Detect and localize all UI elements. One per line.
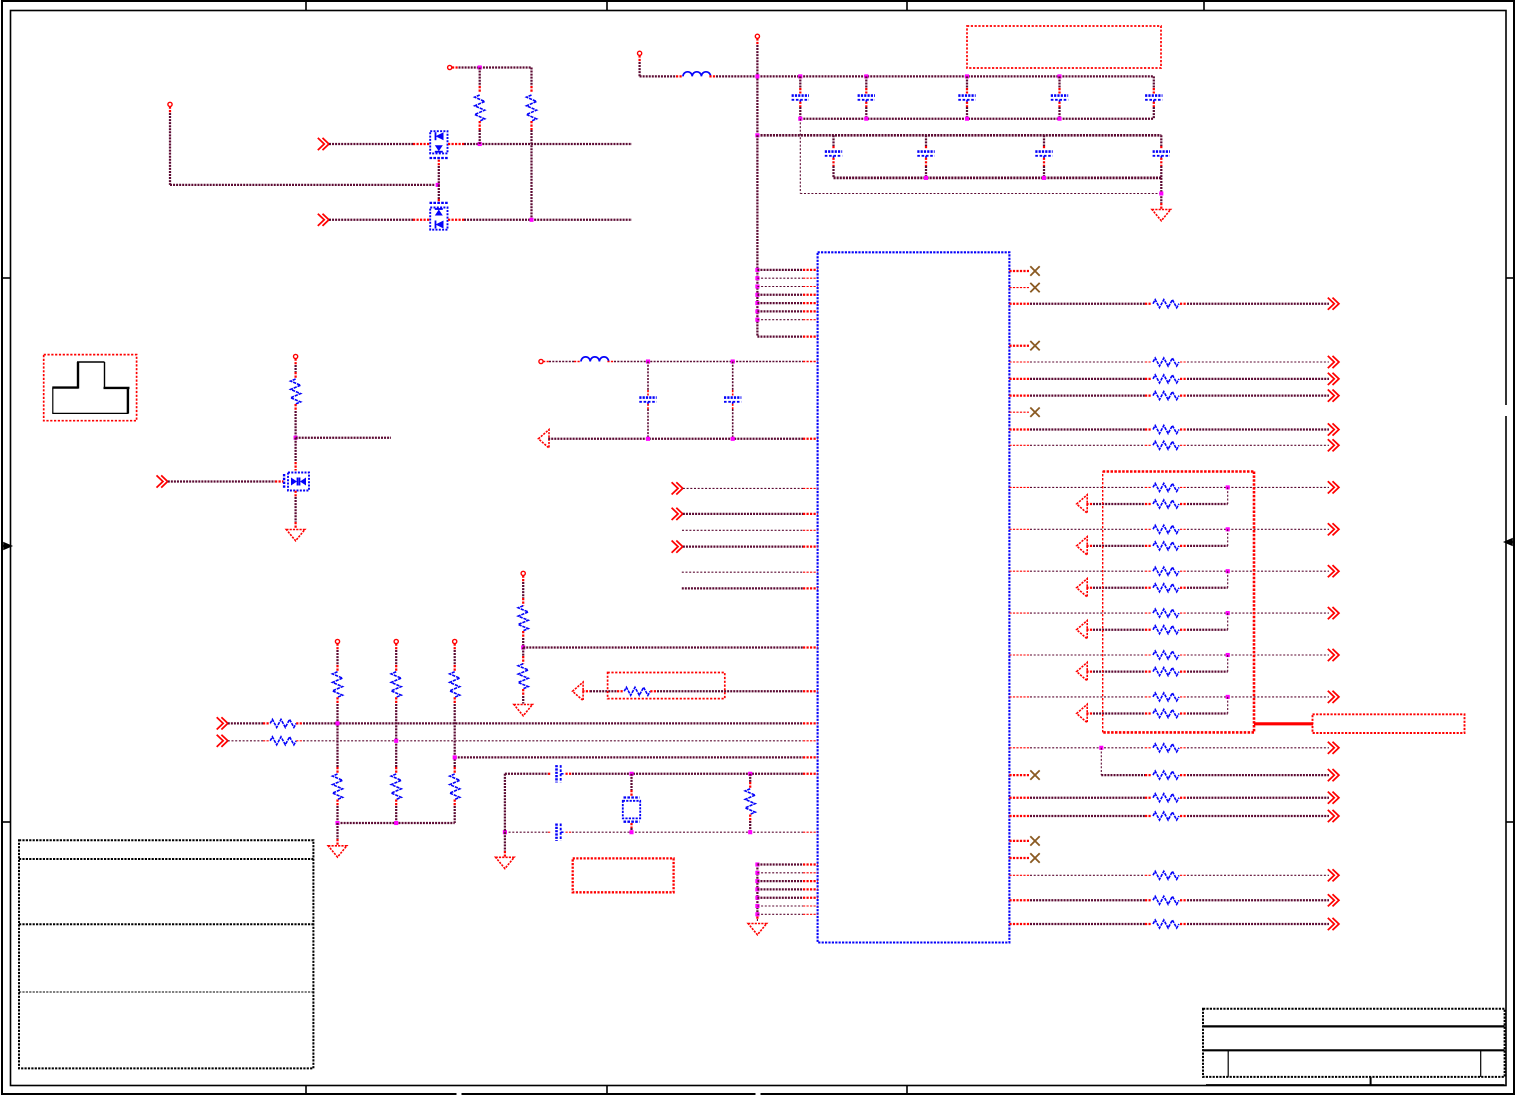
border zone tick left 1 [2, 277, 11, 279]
border zone tick bottom 1 [305, 1086, 307, 1095]
off-page connector OUT13 [1328, 691, 1339, 703]
wire Q1 drain row [448, 143, 464, 145]
resistor R22 [1153, 483, 1179, 491]
wire xtal ground drop [504, 832, 506, 851]
off-page connector IN3 [157, 475, 168, 487]
wire gate rail [170, 184, 435, 186]
resistor R13 [450, 672, 460, 698]
wire C4 bottom stub [1058, 102, 1060, 107]
wire row303 a [1009, 303, 1030, 305]
wire row757 [455, 756, 803, 758]
wire xtal rail bottom b [566, 831, 573, 833]
node col junction P8 [335, 721, 339, 725]
resistor R34 [1153, 744, 1179, 752]
wire row379 b [1180, 378, 1187, 380]
node bus junction 3 [755, 284, 759, 288]
border zone tick bottom 3 [906, 1086, 908, 1095]
resistor R4 [518, 606, 528, 631]
title block outline [1203, 1009, 1505, 1077]
wire xtal rail top b [566, 773, 573, 775]
resistor R19 [1153, 392, 1179, 400]
resistor R29 [1153, 626, 1179, 634]
wire pairrow6 top a [1009, 696, 1030, 698]
capacitor C5 [1145, 94, 1162, 97]
wire bus corner row [757, 335, 803, 337]
wire C9 top stub [1160, 135, 1162, 146]
wire pairrow1 bottom a [1086, 503, 1093, 505]
node rail1 junction b [798, 74, 802, 78]
node bus junction 2 [755, 276, 759, 280]
capacitor C12 [555, 765, 558, 782]
wire pair vertical 3 [1227, 571, 1229, 588]
resistor R31 [1153, 668, 1179, 676]
wire C8 top stub [1043, 135, 1045, 146]
wire C1 top stub [799, 76, 801, 88]
wire row445 b [1180, 444, 1187, 446]
ic U1 [818, 252, 1010, 942]
wire bus vertical [756, 135, 758, 336]
wire bus pin row 4 [757, 294, 803, 296]
node bus junction 6 [755, 309, 759, 313]
no-connect X3 [1030, 341, 1039, 350]
node bus junction 4 [755, 293, 759, 297]
resistor R36 [1153, 794, 1179, 802]
off-page connector IN2 [318, 214, 329, 226]
node Q1-R1 junction [478, 142, 482, 146]
resistor R7 [270, 719, 296, 727]
wire row723 b [296, 722, 303, 724]
wire R4 to node [522, 631, 524, 638]
resistor R35 [1153, 771, 1179, 779]
wire R13 down [454, 697, 456, 704]
capacitor C7 [917, 150, 934, 153]
node pair junction 6 [1226, 695, 1230, 699]
node AGND junction b [731, 437, 735, 441]
wire pair vertical 1 [1227, 487, 1229, 504]
power pin P9 [394, 639, 398, 643]
wire R10 down [336, 800, 338, 807]
wire R15 top stub [749, 774, 751, 782]
wire Q3 drain branch [296, 437, 391, 439]
off-page connector OUT7 [1328, 439, 1339, 451]
wire row723 a [228, 722, 263, 724]
wire row396 b [1180, 394, 1187, 396]
resistor R28 [1153, 609, 1179, 617]
resistor R33 [1153, 710, 1179, 718]
wire bus pin row 6 [757, 310, 803, 312]
title block divider 1 [1227, 1050, 1229, 1077]
title block line 1 [1203, 1025, 1505, 1027]
off-page connector OUT6 [1328, 423, 1339, 435]
resistor R6 [624, 687, 650, 695]
ground GND1 [1152, 210, 1171, 221]
ic pin NC6 [1009, 840, 1029, 842]
wire C11 top stub [732, 362, 734, 391]
node pair junction 1 [1226, 485, 1230, 489]
wire P6 down [294, 359, 296, 365]
power pin P1 [168, 102, 172, 106]
border center arrow right [1505, 539, 1514, 545]
resistor R11 [391, 672, 401, 698]
resistor R14 [450, 774, 460, 800]
label box B3 [573, 858, 674, 892]
capacitor C4 [1051, 94, 1068, 97]
wire stack bus [756, 865, 758, 914]
title block bottom divider [1370, 1077, 1372, 1086]
wire C5 top stub [1153, 76, 1155, 88]
wire pairrow2 bottom a [1086, 545, 1093, 547]
wire ground drop [1160, 178, 1162, 203]
wire row748 a [1009, 747, 1030, 749]
title block divider 2 [1480, 1050, 1482, 1077]
wire row875 b [1180, 874, 1187, 876]
off-page connector OUT12 [1328, 649, 1339, 661]
resistor R39 [1153, 896, 1179, 904]
resistor R1 [475, 95, 485, 121]
wire Q3 source down [294, 491, 296, 497]
wire C6 top stub [832, 135, 834, 146]
wire P4 down bus [756, 38, 758, 45]
node stack junction 3 [755, 879, 759, 883]
inductor L2 [581, 357, 609, 362]
wire C5 bottom stub [1153, 102, 1155, 107]
wire stack row 6 [757, 905, 803, 907]
power pin P10 [453, 639, 457, 643]
node L2 rail junction a [646, 359, 650, 363]
capacitor C1 [792, 94, 809, 97]
port arrow PIN6 [1077, 704, 1088, 722]
wire P3 down [638, 55, 640, 62]
revision table box [19, 840, 313, 1068]
node xtal top junction b [748, 772, 752, 776]
capacitor C6 [825, 150, 842, 153]
wire pairrow1 bottom b [1180, 503, 1187, 505]
wire pairrow5 top b [1180, 654, 1187, 656]
no-connect X1 [1030, 266, 1039, 275]
wire pairrow5 top a [1009, 654, 1030, 656]
node ground drop junction [1159, 191, 1163, 195]
power pin P3 [638, 51, 642, 55]
wire C11 bottom stub [732, 404, 734, 409]
wire IN3 to Q3 gate [168, 480, 275, 482]
capacitor C13 [555, 824, 558, 841]
wire xtal rail bottom [505, 831, 548, 833]
wire C3 top stub [966, 76, 968, 88]
resistor R18 [1153, 375, 1179, 383]
wire row900 b [1180, 899, 1187, 901]
wire IN2 to Q2 [329, 219, 413, 221]
wire row362 b [1180, 361, 1187, 363]
wire node to R5 [522, 648, 524, 657]
node bus junction 1 [755, 268, 759, 272]
resistor R9 [333, 672, 343, 698]
capacitor C11 [724, 396, 741, 399]
power pin P4 [755, 34, 759, 38]
wire pairrow3 bottom a [1086, 587, 1093, 589]
wire stack row 2 [757, 872, 803, 874]
revision table row line 3 [19, 991, 313, 993]
resistor R20 [1153, 426, 1179, 434]
node bottom rail junction b [394, 821, 398, 825]
wire stack row 5 [757, 897, 803, 899]
wire R5 to ground [522, 689, 524, 696]
resistor R24 [1153, 525, 1179, 533]
off-page connector OUT9 [1328, 523, 1339, 535]
wire row875 a [1009, 874, 1030, 876]
wire C3 bottom stub [966, 102, 968, 107]
wire rail1 drop [799, 119, 801, 194]
node rail1ret junction a [798, 117, 802, 121]
node bus junction 5 [755, 301, 759, 305]
node gate junction [436, 183, 440, 187]
resistor R26 [1153, 567, 1179, 575]
logo shape [77, 362, 79, 389]
border notch bottom 1 [457, 1090, 462, 1096]
wire row429 b [1180, 428, 1187, 430]
off-page connector OUT4 [1328, 373, 1339, 385]
border notch bottom 2 [756, 1090, 761, 1096]
wire bus pin row 3 [757, 286, 803, 288]
power pin P8 [335, 639, 339, 643]
wire stack row 7 [757, 913, 803, 915]
node stack junction 4 [755, 887, 759, 891]
wire rail to ground [336, 823, 338, 839]
resistor R15 [745, 789, 755, 815]
wire cap rail 1 [757, 75, 1153, 77]
off-page connector IN5 [672, 508, 683, 520]
node L2 rail junction b [731, 359, 735, 363]
wire P8 down [336, 644, 338, 650]
wire pairrow6 top b [1180, 696, 1187, 698]
wire gate to Q2 [438, 185, 440, 199]
wire stack row 3 [757, 880, 803, 882]
node stack junction 7 [755, 912, 759, 916]
ic pin NC1 [1009, 270, 1029, 272]
wire pairrow3 top b [1180, 570, 1187, 572]
off-page connector OUT20 [1328, 918, 1339, 930]
wire stack row 4 [757, 888, 803, 890]
port arrow PIN1 [1077, 495, 1088, 513]
node rail1 junction a [755, 74, 759, 78]
wire row748 b [1180, 747, 1187, 749]
node rail2ret junction a [924, 176, 928, 180]
wire R1 top stub [479, 68, 481, 87]
wire P7 down [522, 576, 524, 583]
wire row924 b [1180, 923, 1187, 925]
wire stack row 1 [757, 863, 803, 865]
no-connect X2 [1030, 283, 1039, 292]
wire row798 b [1180, 797, 1187, 799]
wire row775 a [1101, 774, 1145, 776]
off-page connector IN6 [672, 541, 683, 553]
node bus junction 7 [755, 318, 759, 322]
label box B5 [1313, 714, 1465, 733]
label box B1 [967, 26, 1161, 68]
logo frame [44, 355, 137, 421]
off-page connector OUT17 [1328, 810, 1339, 822]
wire row798 a [1009, 797, 1030, 799]
node rail2ret junction b [1042, 176, 1046, 180]
ic pin NC3 [1009, 345, 1029, 347]
wire pairrow3 bottom b [1180, 587, 1187, 589]
wire L2 to IC [607, 361, 614, 363]
wire row924 a [1009, 923, 1030, 925]
capacitor C2 [858, 94, 875, 97]
node col junction P10 [453, 755, 457, 759]
wire R15 bottom stub [749, 815, 751, 822]
wire row572 [682, 571, 803, 573]
wire pairrow2 top a [1009, 528, 1030, 530]
wire AGND rail [548, 438, 803, 440]
off-page connector OUT18 [1328, 869, 1339, 881]
wire row429 a [1009, 428, 1030, 430]
wire row691 a [582, 690, 590, 692]
off-page connector OUT11 [1328, 607, 1339, 619]
node stack junction 6 [755, 904, 759, 908]
border zone tick left 2 [2, 821, 11, 823]
no-connect X5 [1030, 770, 1039, 779]
border zone tick top 2 [606, 1, 608, 11]
wire pair vertical 4 [1227, 613, 1229, 630]
wire C10 bottom stub [647, 404, 649, 409]
wire bus pin row 1 [757, 269, 803, 271]
wire row741 b [296, 740, 303, 742]
resistor R32 [1153, 693, 1179, 701]
wire C1 bottom stub [799, 102, 801, 107]
wire pairrow2 bottom b [1180, 545, 1187, 547]
wire IN1 to Q1 [329, 143, 413, 145]
wire pairrow4 top b [1180, 612, 1187, 614]
wire row362 a [1009, 361, 1030, 363]
border zone tick bottom 2 [606, 1086, 608, 1095]
wire row816 b [1180, 815, 1187, 817]
wire C10 top stub [647, 362, 649, 391]
wire pairrow1 top a [1009, 486, 1030, 488]
wire row514 [683, 513, 803, 515]
ic pin NC4 [1009, 411, 1029, 413]
resistor R10 [333, 774, 343, 800]
off-page connector IN8 [217, 735, 228, 747]
wire row488 [683, 487, 803, 489]
node AGND junction a [646, 437, 650, 441]
label box B2 [608, 673, 725, 699]
node stack junction 5 [755, 896, 759, 900]
wire pairrow2 top b [1180, 528, 1187, 530]
border zone tick top 4 [1203, 1, 1205, 11]
wire C6 bottom stub [832, 158, 834, 166]
wire pairrow4 top a [1009, 612, 1030, 614]
node rail-R1 junction [478, 65, 482, 69]
revision table row line 2 [19, 923, 313, 925]
wire R9 down [336, 697, 338, 704]
wire pairrow1 top b [1180, 486, 1187, 488]
crystal Y1 [624, 796, 640, 798]
ic pin NC2 [1009, 287, 1029, 289]
wire pairrow6 bottom b [1180, 712, 1187, 714]
wire R2 bottom [530, 121, 532, 130]
wire pair vertical 6 [1227, 697, 1229, 714]
wire C4 top stub [1058, 76, 1060, 88]
node stack junction 2 [755, 871, 759, 875]
no-connect X4 [1030, 408, 1039, 417]
no-connect X6 [1030, 836, 1039, 845]
node pair junction 4 [1226, 611, 1230, 615]
transistor Q3 [288, 473, 309, 491]
power pin P6 [294, 354, 298, 358]
resistor R38 [1153, 871, 1179, 879]
wire bus pin row 5 [757, 302, 803, 304]
resistor R16 [1153, 300, 1179, 308]
wire R14 down [454, 800, 456, 807]
resistor R40 [1153, 920, 1179, 928]
node rail2 junction a [755, 133, 759, 137]
ground GND3 [514, 705, 533, 716]
wire cap rail 2 [757, 134, 1161, 137]
wire P1 down [169, 107, 171, 114]
ground GND5 [496, 857, 515, 868]
off-page connector IN1 [318, 138, 329, 150]
transistor Q2 [430, 208, 447, 230]
wire pairrow4 bottom b [1180, 629, 1187, 631]
node xtal top junction a [629, 772, 633, 776]
wire row530 [682, 529, 803, 531]
node row748 junction [1099, 746, 1103, 750]
title block bottom strip line [1206, 1084, 1505, 1086]
wire bus pin row 7 [757, 319, 803, 321]
no-connect X7 [1030, 853, 1039, 862]
port arrow PIN5 [1077, 662, 1088, 680]
wire R3 to node [294, 404, 296, 411]
wire C7 bottom stub [925, 158, 927, 166]
wire top rail R1R2 [452, 66, 459, 68]
wire C2 bottom stub [865, 102, 867, 107]
wire cap rail 1 return [800, 118, 1154, 120]
ground GND6 [748, 924, 767, 935]
off-page connector OUT10 [1328, 565, 1339, 577]
wire pairrow3 top a [1009, 570, 1030, 572]
node rail1ret junction b [864, 117, 868, 121]
port arrow PIN2 [1077, 537, 1088, 555]
node xtal bottom junction c [748, 830, 752, 834]
port arrow PIN4 [1077, 621, 1088, 639]
node pair junction 2 [1226, 527, 1230, 531]
off-page connector OUT14 [1328, 742, 1339, 754]
node pair junction 3 [1226, 569, 1230, 573]
border zone tick top 3 [906, 1, 908, 11]
wire columns bottom rail [338, 822, 455, 824]
off-page connector IN7 [217, 717, 228, 729]
group box B4 [1103, 470, 1254, 473]
border zone tick right 2 [1506, 821, 1514, 823]
wire pairrow6 bottom a [1086, 712, 1093, 714]
wire C8 bottom stub [1043, 158, 1045, 166]
node col junction P9 [394, 739, 398, 743]
resistor R2 [527, 95, 537, 121]
node rail1 junction e [1057, 74, 1061, 78]
resistor R5 [518, 664, 528, 689]
wire row588 [682, 587, 803, 589]
wire C9 bottom stub [1160, 158, 1162, 166]
power pin P5 [539, 359, 543, 363]
border center arrow left [2, 543, 11, 549]
capacitor C10 [639, 396, 656, 399]
wire R1 bottom stub [479, 121, 481, 130]
wire C2 top stub [865, 76, 867, 88]
resistor R23 [1153, 500, 1179, 508]
node rail1 junction c [864, 74, 868, 78]
wire Y1 top stub [630, 774, 632, 790]
port arrow PIN3 [1077, 579, 1088, 597]
